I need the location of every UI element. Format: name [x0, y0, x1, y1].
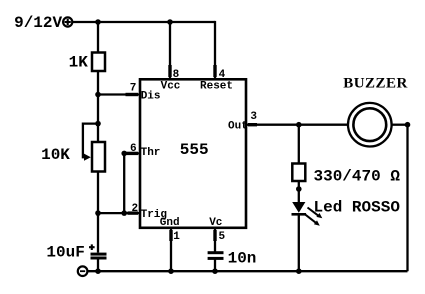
svg-text:Vc: Vc — [209, 217, 222, 229]
svg-text:555: 555 — [180, 141, 209, 159]
svg-text:5: 5 — [219, 231, 226, 243]
svg-text:BUZZER: BUZZER — [343, 75, 408, 91]
svg-text:2: 2 — [132, 203, 139, 215]
svg-text:Dis: Dis — [141, 91, 161, 103]
svg-text:6: 6 — [130, 143, 137, 155]
svg-text:10uF: 10uF — [46, 244, 84, 262]
svg-text:4: 4 — [219, 69, 226, 81]
svg-text:1: 1 — [173, 231, 180, 243]
svg-text:330/470 Ω: 330/470 Ω — [314, 167, 401, 185]
svg-text:Gnd: Gnd — [160, 217, 180, 229]
svg-text:9/12V: 9/12V — [14, 14, 62, 32]
svg-text:10K: 10K — [41, 146, 70, 164]
svg-text:Vcc: Vcc — [161, 81, 181, 93]
svg-text:Out: Out — [228, 120, 248, 132]
svg-text:8: 8 — [173, 69, 180, 81]
svg-text:7: 7 — [130, 82, 137, 94]
svg-text:Thr: Thr — [141, 147, 161, 159]
svg-text:1K: 1K — [69, 53, 89, 71]
svg-text:10n: 10n — [228, 250, 257, 268]
svg-text:3: 3 — [250, 111, 257, 123]
svg-text:Reset: Reset — [200, 81, 233, 93]
svg-text:Led ROSSO: Led ROSSO — [314, 199, 401, 217]
